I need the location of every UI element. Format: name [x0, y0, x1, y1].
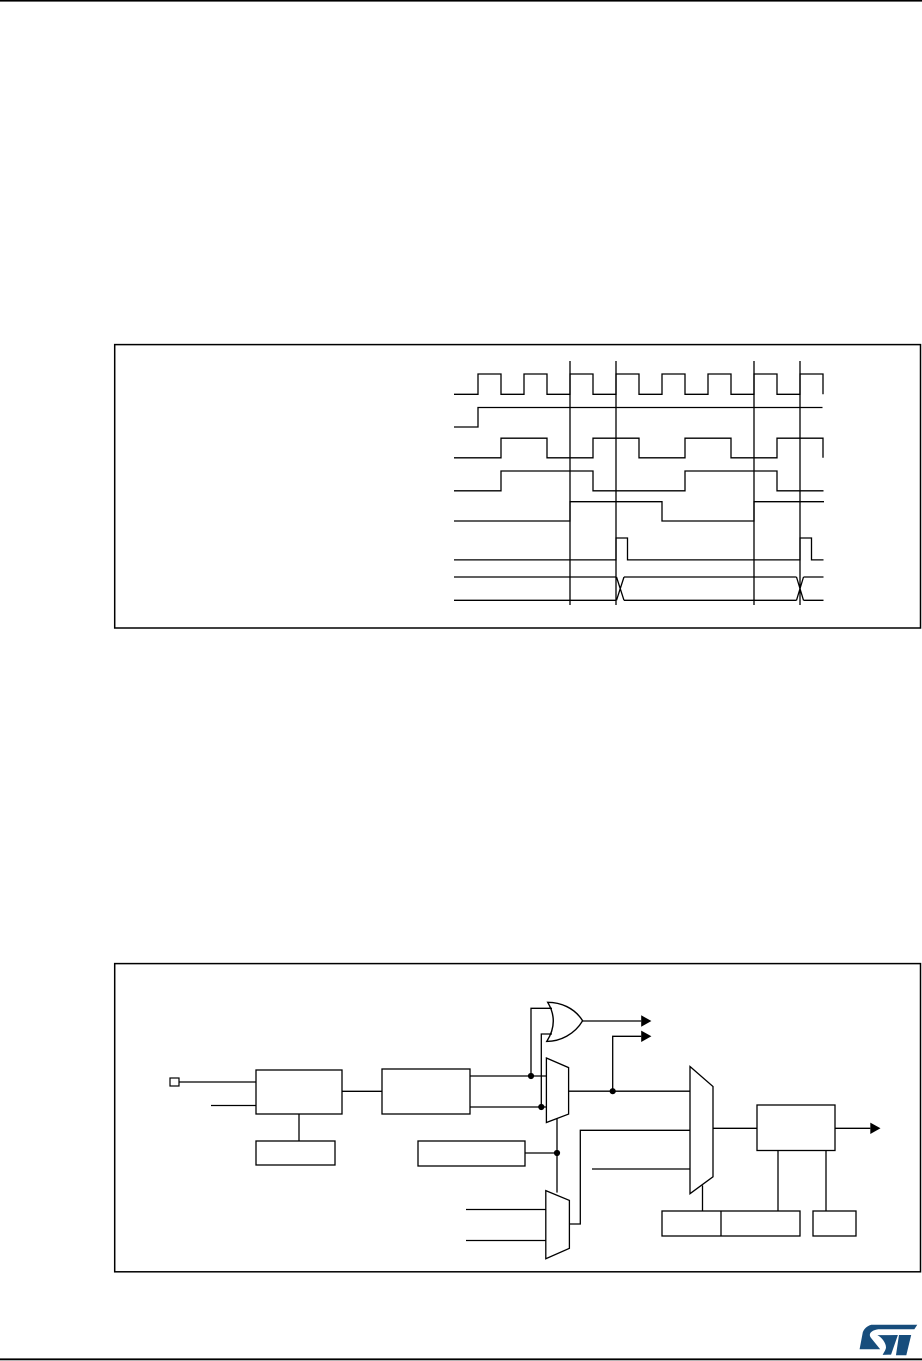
- wire: mux M2 input 0: [466, 1209, 546, 1211]
- arrow head 3: [870, 1123, 880, 1134]
- big mux M3 trapezoid: [690, 1067, 713, 1194]
- wire: waveform row 3 clock/2: [454, 438, 823, 458]
- wire: big mux output to block B5: [713, 1127, 757, 1129]
- block B2: [382, 1069, 470, 1114]
- wire: B5 down left to B6: [777, 1151, 779, 1212]
- ST logo: [860, 1325, 918, 1356]
- cursor line 3: [753, 361, 755, 605]
- wire: mux M1 output to big mux: [569, 1090, 690, 1092]
- wire: mux M2 output up to big mux input 1: [569, 1130, 690, 1224]
- wire: waveform row 2 enable signal: [454, 408, 823, 428]
- figure 1 border box: [115, 345, 921, 628]
- wire: OR gate input B: [541, 1034, 552, 1107]
- wire: B5 output to arrow: [835, 1127, 870, 1129]
- wire: select line mux M1 to mux M2: [556, 1119, 558, 1193]
- top page rule: [0, 0, 922, 2]
- wire: second input to block B1: [211, 1105, 256, 1107]
- block B7: [813, 1211, 856, 1236]
- bottom page rule: [0, 1358, 922, 1360]
- wire: waveform row 4 clock/4: [454, 471, 824, 491]
- block B1: [256, 1070, 342, 1114]
- wire: OR output to arrow: [583, 1020, 642, 1022]
- node: junction on input 1: [538, 1104, 544, 1110]
- wire: bus top line: [454, 576, 824, 578]
- node: junction on mux output: [610, 1088, 616, 1094]
- wire: B3 output to select line: [525, 1152, 557, 1154]
- block B5: [757, 1105, 835, 1151]
- wire: B2 to mux M1 input 0: [470, 1075, 546, 1077]
- wire: pin to block B1: [179, 1081, 256, 1083]
- wire: B2 to mux M1 input 1: [470, 1106, 546, 1108]
- wire: junction up to arrow 2: [613, 1036, 642, 1091]
- wire: B1 down to B1b: [298, 1114, 300, 1141]
- arrow head 1: [641, 1015, 651, 1026]
- OR gate U1: [547, 1002, 583, 1041]
- wire: waveform row 6 flag pulses: [454, 538, 824, 560]
- node: junction on select line: [554, 1150, 560, 1156]
- wire: mux M2 input 1: [466, 1240, 546, 1242]
- bus transition X 1: [617, 577, 625, 600]
- wire: OR gate input A: [531, 1008, 552, 1076]
- bus transition X 2: [797, 577, 804, 600]
- wire: big mux input 2: [592, 1168, 690, 1170]
- block B1b: [256, 1141, 335, 1165]
- wire: B5 down right to B7: [825, 1151, 827, 1212]
- mux M2 trapezoid: [546, 1191, 570, 1259]
- cursor line 2: [615, 361, 617, 605]
- block B6 register pair: [662, 1211, 800, 1236]
- cursor line 4: [799, 361, 801, 605]
- wire: waveform row 1 CPU clock: [454, 374, 823, 394]
- node: junction on input 0: [528, 1073, 534, 1079]
- mux M1 trapezoid: [546, 1058, 568, 1123]
- divider of register pair: [720, 1211, 722, 1236]
- figure 2 border box: [115, 964, 921, 1272]
- wire: big mux select down: [702, 1186, 704, 1212]
- wire: waveform row 5 gate signal: [454, 502, 824, 521]
- cursor line 1: [569, 361, 571, 605]
- arrow head 2: [641, 1031, 651, 1042]
- block B3: [418, 1141, 525, 1166]
- wire: bus bottom line: [454, 599, 824, 601]
- wire: B1 to B2: [342, 1090, 382, 1092]
- input pin square: [170, 1078, 179, 1086]
